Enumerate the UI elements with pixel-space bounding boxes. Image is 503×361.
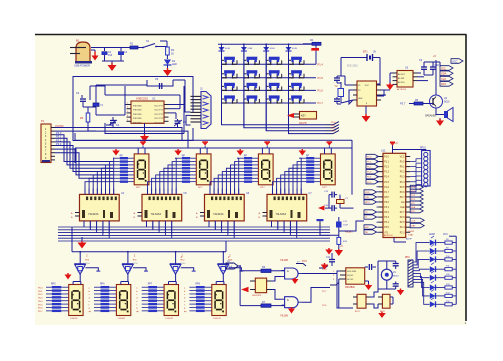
svg-text:P1.7: P1.7 xyxy=(384,192,389,194)
wire bus vertical bundle xyxy=(85,158,114,194)
svg-text:74LS164: 74LS164 xyxy=(151,212,162,216)
capacitor C11 xyxy=(326,253,335,266)
capacitor C12 xyxy=(365,264,376,270)
svg-text:P1.3: P1.3 xyxy=(384,172,389,174)
net labels right of MCU xyxy=(410,185,423,213)
svg-text:RP8: RP8 xyxy=(195,284,200,286)
wire display top posts xyxy=(325,148,332,154)
svg-text:P0.6: P0.6 xyxy=(400,192,405,194)
net flag clk2 xyxy=(319,266,328,269)
svg-text:10uF: 10uF xyxy=(343,225,349,227)
svg-text:P0.6: P0.6 xyxy=(38,308,43,310)
crystal Y2 xyxy=(335,82,344,103)
svg-text:P30 RXD: P30 RXD xyxy=(133,114,142,116)
svg-text:USB POWER: USB POWER xyxy=(74,64,90,68)
svg-text:VCC: VCC xyxy=(400,157,405,159)
svg-text:A2 SCL: A2 SCL xyxy=(398,81,406,84)
wire mcu bottom xyxy=(394,238,406,243)
svg-text:74LS08: 74LS08 xyxy=(280,260,289,262)
svg-text:VCC P17: VCC P17 xyxy=(154,122,164,124)
resistor R15 xyxy=(445,301,456,306)
net label SCL2 xyxy=(440,76,453,81)
svg-text:P2.7: P2.7 xyxy=(322,291,327,293)
svg-text:VCC P17: VCC P17 xyxy=(154,110,164,112)
svg-text:P0.4: P0.4 xyxy=(400,182,405,184)
svg-text:RP7: RP7 xyxy=(148,284,153,286)
svg-text:P1.1: P1.1 xyxy=(384,162,389,164)
diode D5 4148 xyxy=(286,44,298,51)
capacitor C2 xyxy=(118,48,128,62)
svg-text:P1.6: P1.6 xyxy=(384,187,389,189)
resistor R5 xyxy=(409,99,433,105)
wire xyxy=(91,47,133,49)
key switch S18 reset xyxy=(294,112,317,126)
svg-text:1K: 1K xyxy=(171,53,174,56)
key switch S14 xyxy=(222,95,238,103)
transistor Q2 8550 driver xyxy=(74,252,100,282)
net flag clk1 xyxy=(296,262,306,267)
IC U9 DS18B20 xyxy=(333,268,365,289)
key switch S3 xyxy=(244,57,260,65)
IC U7 74LS164 xyxy=(259,189,313,235)
svg-text:CLK: CLK xyxy=(411,220,416,222)
transistor Q3 8550 driver xyxy=(122,252,148,282)
svg-text:DS1302: DS1302 xyxy=(347,64,358,68)
svg-text:8550: 8550 xyxy=(133,263,139,265)
keypad top rail xyxy=(218,43,316,45)
keypad bottom bus xyxy=(222,107,326,134)
svg-text:P0.3: P0.3 xyxy=(38,298,43,300)
svg-text:VCC: VCC xyxy=(443,234,448,236)
svg-text:GND: GND xyxy=(358,98,363,100)
wire keypad row xyxy=(222,102,317,104)
wire buzzer loop xyxy=(378,261,396,289)
svg-text:DS18B20: DS18B20 xyxy=(345,287,356,289)
wire mcu left stubs xyxy=(377,157,379,233)
wire bus to pack xyxy=(298,157,300,159)
wire display top posts xyxy=(200,148,207,154)
svg-text:A1 WP: A1 WP xyxy=(398,77,405,80)
IC U4 74LS164 xyxy=(71,189,125,235)
power arrow xyxy=(65,273,72,280)
display DS4 7seg xyxy=(321,154,336,189)
wire right vertical xyxy=(0,0,1,1)
svg-text:18432: 18432 xyxy=(408,231,415,233)
power arrow xyxy=(325,248,333,255)
svg-text:P2.6: P2.6 xyxy=(400,217,405,219)
wire xyxy=(339,221,364,231)
key switch S6 xyxy=(222,70,238,78)
wire xyxy=(102,61,124,64)
display DS8 7seg xyxy=(212,282,226,321)
diode D2 4148 xyxy=(219,44,231,51)
IC U1 89C2051 xyxy=(127,97,169,125)
svg-text:&: & xyxy=(287,269,289,273)
transistor Q4 8550 driver xyxy=(170,252,196,282)
svg-text:RST: RST xyxy=(384,197,389,199)
wire keypad row xyxy=(222,77,317,79)
wire box inner xyxy=(90,86,184,134)
svg-text:8550: 8550 xyxy=(181,263,187,265)
power arrow xyxy=(365,281,373,290)
power arrow xyxy=(335,249,344,256)
connector J1 header xyxy=(191,87,212,129)
capacitor C9 xyxy=(419,59,427,75)
crystal Y3 xyxy=(337,195,349,209)
key switch S17 xyxy=(289,95,305,103)
resistor pack RP6 xyxy=(89,284,117,314)
net label row0 xyxy=(325,122,339,125)
capacitor C4 xyxy=(106,117,120,127)
power arrow xyxy=(288,307,295,314)
svg-text:VDD GND: VDD GND xyxy=(347,271,357,273)
net label row1 xyxy=(325,125,339,128)
ground arrow xyxy=(362,106,371,122)
wire box xyxy=(73,77,193,141)
ground arrow xyxy=(108,63,117,71)
display DS3 7seg xyxy=(258,154,273,189)
resistor pack RP5 xyxy=(38,284,69,314)
svg-text:VCC P17: VCC P17 xyxy=(154,118,164,120)
wire xyxy=(424,62,440,75)
capacitor C16 xyxy=(324,205,337,211)
power arrow tick xyxy=(202,141,208,148)
net label VCC5 xyxy=(55,124,64,128)
key switch S2 xyxy=(222,57,238,65)
wire keypad bus to mcu area xyxy=(351,140,353,194)
capacitor C3 xyxy=(76,92,96,107)
net label P3.3 xyxy=(56,142,62,146)
svg-text:P2.7: P2.7 xyxy=(400,212,405,214)
svg-text:P30 RXD: P30 RXD xyxy=(133,122,142,124)
capacitor C7 xyxy=(334,76,341,83)
wire LED rail xyxy=(429,234,456,304)
LED D10 xyxy=(430,271,445,281)
capacitor C17 electrolytic xyxy=(336,217,349,237)
svg-text:VCC: VCC xyxy=(452,59,458,63)
AND gate U8B 74LS08 xyxy=(280,297,302,318)
buzzer LS2 xyxy=(381,269,399,280)
svg-text:74LS164: 74LS164 xyxy=(88,212,99,216)
svg-text:P0.7: P0.7 xyxy=(400,197,405,199)
svg-text:817C: 817C xyxy=(355,311,361,313)
resistor R3 xyxy=(80,107,96,131)
power arrow xyxy=(321,263,329,270)
key switch S5 xyxy=(289,57,305,65)
key switch S4 xyxy=(266,57,282,65)
svg-text:74LS164: 74LS164 xyxy=(276,212,287,216)
sheet border xyxy=(35,35,467,322)
LED D12 xyxy=(430,289,445,299)
resistor R11 xyxy=(445,266,456,271)
resistor R16 xyxy=(337,237,348,249)
wire keypad column xyxy=(221,51,223,125)
svg-text:AT89C52: AT89C52 xyxy=(384,234,393,237)
resistor R14 xyxy=(445,292,456,297)
svg-text:74LS164: 74LS164 xyxy=(213,212,224,216)
wire vcc to rp10 xyxy=(393,150,426,151)
wire bus to pack xyxy=(112,157,114,159)
switch S1 xyxy=(141,40,167,48)
svg-text:RP5: RP5 xyxy=(51,284,56,286)
svg-text:P2.0: P2.0 xyxy=(331,122,336,124)
AND gate U8A 74LS08 xyxy=(280,260,302,279)
svg-text:LG5011: LG5011 xyxy=(165,318,173,320)
wire keypad row xyxy=(222,89,317,91)
net label row3 xyxy=(325,130,339,133)
net label P1.0 xyxy=(318,63,324,67)
power arrow xyxy=(78,237,87,249)
svg-text:P3.1: P3.1 xyxy=(384,207,389,209)
wire keypad column xyxy=(288,51,290,134)
svg-text:LS: LS xyxy=(393,272,396,274)
svg-text:LG5011: LG5011 xyxy=(118,318,126,320)
label RESET xyxy=(345,231,354,234)
resistor R7 xyxy=(261,301,285,307)
svg-text:BT1: BT1 xyxy=(363,51,368,54)
power arrow xyxy=(292,278,299,285)
svg-text:AT89C2051: AT89C2051 xyxy=(136,98,149,101)
diode D4 4148 xyxy=(263,44,275,51)
svg-text:SDA: SDA xyxy=(441,72,447,76)
wire ic top bus xyxy=(210,188,239,190)
wire ic top bus xyxy=(148,188,177,190)
svg-text:4148: 4148 xyxy=(225,48,231,50)
svg-text:P0.2: P0.2 xyxy=(400,172,405,174)
ground arrow xyxy=(163,68,172,76)
wire bus to pack xyxy=(236,157,238,159)
svg-text:LED8: LED8 xyxy=(429,234,435,236)
svg-text:P3.2: P3.2 xyxy=(384,212,389,214)
wire IC bottom drops xyxy=(84,221,297,238)
svg-text:XTL: XTL xyxy=(384,232,389,234)
svg-text:RD: RD xyxy=(365,232,369,234)
IC U3 AT24C02 xyxy=(393,67,418,92)
svg-text:4148: 4148 xyxy=(292,48,298,50)
IC U11 optocoupler xyxy=(378,294,390,313)
power arrow group2 xyxy=(174,149,182,156)
svg-text:VCC: VCC xyxy=(365,85,370,87)
wire display top posts xyxy=(138,148,145,154)
LED D7 xyxy=(430,245,445,255)
capacitor C13 xyxy=(393,261,399,269)
LED D8 xyxy=(430,253,445,263)
svg-text:BUZZ: BUZZ xyxy=(393,276,399,278)
svg-text:P1.7: P1.7 xyxy=(318,101,324,105)
svg-text:NC NC: NC NC xyxy=(347,279,354,281)
net label SCL0 xyxy=(440,66,453,71)
net label P1.1 xyxy=(318,76,324,80)
IC U5 74LS164 xyxy=(134,189,188,235)
key switch S16 xyxy=(266,95,282,103)
wire VCC xyxy=(390,142,398,154)
svg-text:LG5011: LG5011 xyxy=(70,318,78,320)
svg-text:SDA: SDA xyxy=(411,206,416,209)
svg-text:RST: RST xyxy=(441,82,447,86)
power arrow xyxy=(378,312,386,319)
svg-text:A0 VCC: A0 VCC xyxy=(398,73,406,76)
LED D13 xyxy=(430,298,445,308)
resistor pack RP4 xyxy=(299,156,320,183)
IC U2 DS1302 xyxy=(347,64,381,107)
svg-text:VCC P17: VCC P17 xyxy=(154,114,164,116)
svg-text:P0.7: P0.7 xyxy=(38,311,43,313)
connector B1 USB POWER xyxy=(70,39,92,68)
net label P3.0 xyxy=(56,131,62,135)
ground arrow xyxy=(140,123,149,142)
svg-text:P0.0: P0.0 xyxy=(400,162,405,164)
svg-text:AT24C02: AT24C02 xyxy=(397,88,407,91)
svg-text:C10: C10 xyxy=(435,64,440,67)
svg-text:P0.2: P0.2 xyxy=(38,294,43,296)
net label P3.7 xyxy=(400,102,406,106)
wire xyxy=(418,73,429,81)
svg-text:P3.5: P3.5 xyxy=(384,227,389,229)
wire rail A xyxy=(75,133,352,148)
svg-text:P3.7: P3.7 xyxy=(400,102,406,106)
resistor R13 xyxy=(445,284,456,289)
resistor R4 pullup xyxy=(303,39,321,64)
power arrow tick xyxy=(140,141,146,148)
wire xyxy=(0,0,1,1)
svg-text:P2.5: P2.5 xyxy=(322,269,327,271)
svg-text:P30 RXD: P30 RXD xyxy=(133,106,142,108)
net labels left of MCU xyxy=(366,154,379,184)
svg-text:SW-PB: SW-PB xyxy=(299,123,307,125)
svg-text:3V: 3V xyxy=(373,51,376,54)
resistor R1 xyxy=(124,43,141,50)
wire ic top bus xyxy=(273,188,302,190)
svg-text:KEY: KEY xyxy=(301,115,306,118)
svg-text:P2.1: P2.1 xyxy=(331,125,336,127)
wire bus vertical bundle xyxy=(210,158,239,194)
label XTAL xyxy=(408,231,415,237)
svg-text:RP6: RP6 xyxy=(100,284,105,286)
svg-text:P3.4: P3.4 xyxy=(227,266,233,269)
svg-text:LG5011: LG5011 xyxy=(213,318,221,320)
resistor pack RP1 xyxy=(113,156,134,183)
key switch S20 reset button xyxy=(317,219,339,235)
svg-text:P1.4: P1.4 xyxy=(318,63,324,67)
wire keypad verticals xyxy=(222,44,289,107)
wire ic top bus xyxy=(85,188,114,190)
svg-text:ALE: ALE xyxy=(400,206,405,209)
ground arrow xyxy=(386,73,394,90)
IC U10 optocoupler xyxy=(353,294,370,313)
svg-text:104: 104 xyxy=(108,54,113,57)
wire sensor left loop xyxy=(337,271,353,308)
wire crystal to mcu xyxy=(340,207,353,209)
svg-text:SW-DIP4: SW-DIP4 xyxy=(252,295,262,297)
capacitor C1 xyxy=(102,48,113,62)
ground arrow xyxy=(436,118,444,126)
display DS7 7seg xyxy=(164,282,178,321)
svg-text:4148: 4148 xyxy=(247,48,253,50)
power arrow tick xyxy=(327,141,333,148)
resistor network RN1 xyxy=(405,257,413,287)
power arrow xyxy=(241,287,249,293)
svg-text:8550: 8550 xyxy=(85,263,91,265)
wire bottom rail xyxy=(72,241,226,253)
svg-text:74LS08: 74LS08 xyxy=(280,316,289,318)
wire bus vertical bundle xyxy=(273,158,302,194)
LED D9 xyxy=(430,263,445,273)
power arrow group3 xyxy=(236,149,244,156)
key switch S10 xyxy=(222,83,238,91)
display DS5 7seg xyxy=(69,282,83,321)
capacitor C15 xyxy=(324,191,337,198)
net label TXD xyxy=(302,261,307,263)
svg-text:P1: P1 xyxy=(41,119,45,123)
svg-text:P0.3: P0.3 xyxy=(400,177,405,179)
net label row2 xyxy=(325,128,339,131)
svg-text:SCL: SCL xyxy=(441,66,447,70)
svg-text:P2.4: P2.4 xyxy=(400,227,405,229)
resistor R8 xyxy=(445,239,456,244)
IC U6 74LS164 xyxy=(196,189,250,235)
key switch S8 xyxy=(266,70,282,78)
wire mcu right to rp xyxy=(410,159,421,192)
capacitor C5 top xyxy=(147,78,173,89)
net label P1.2 xyxy=(318,89,324,93)
svg-text:P0.1: P0.1 xyxy=(38,291,43,293)
display DS2 7seg xyxy=(196,154,211,189)
svg-text:P0.5: P0.5 xyxy=(38,304,43,306)
wire bus vertical bundle xyxy=(148,158,177,194)
svg-text:9013: 9013 xyxy=(444,101,450,104)
svg-text:P1.4: P1.4 xyxy=(384,177,389,179)
key switch S9 xyxy=(289,70,305,78)
svg-text:EA: EA xyxy=(401,201,405,204)
svg-text:P30 RXD: P30 RXD xyxy=(133,118,142,120)
transistor Q1 9013 xyxy=(430,95,450,108)
net label SCL1 xyxy=(440,71,453,76)
wire xyxy=(337,76,390,104)
ground arrow xyxy=(91,50,99,61)
capacitor C14 xyxy=(393,282,399,290)
resistor R2 xyxy=(166,47,175,59)
resistor pack RP7 xyxy=(136,284,164,314)
wire rail B xyxy=(75,148,352,163)
svg-text:DPY: DPY xyxy=(136,187,141,189)
svg-text:WR: WR xyxy=(365,227,369,229)
key switch S12 xyxy=(266,83,282,91)
resistor pack RP3 xyxy=(237,156,258,183)
IC U12 AT89C52 xyxy=(379,150,411,238)
wire VCC to transistor xyxy=(433,55,436,95)
diode D3 4148 xyxy=(241,44,253,51)
svg-text:DPY: DPY xyxy=(322,187,327,189)
svg-text:P0.5: P0.5 xyxy=(400,187,405,189)
wire xyxy=(169,86,185,134)
capacitor C8 xyxy=(334,97,341,104)
svg-text:P1.5: P1.5 xyxy=(318,76,324,80)
wire gate inputs xyxy=(271,271,285,306)
net label P1.3 xyxy=(318,101,324,105)
crystal Y1 xyxy=(93,95,104,110)
display DS1 7seg xyxy=(134,154,149,189)
svg-text:P3.4: P3.4 xyxy=(384,222,389,224)
svg-text:P1.5: P1.5 xyxy=(384,182,389,184)
svg-text:P2.6: P2.6 xyxy=(322,305,327,307)
svg-text:RP9: RP9 xyxy=(405,257,410,259)
net label SCL3 xyxy=(440,82,453,87)
wire below-IC bus xyxy=(58,227,330,241)
wire keypad row xyxy=(222,63,317,65)
net labels right of MCU lower xyxy=(406,218,424,240)
wire header fanout xyxy=(55,128,188,179)
wire xyxy=(160,41,167,47)
